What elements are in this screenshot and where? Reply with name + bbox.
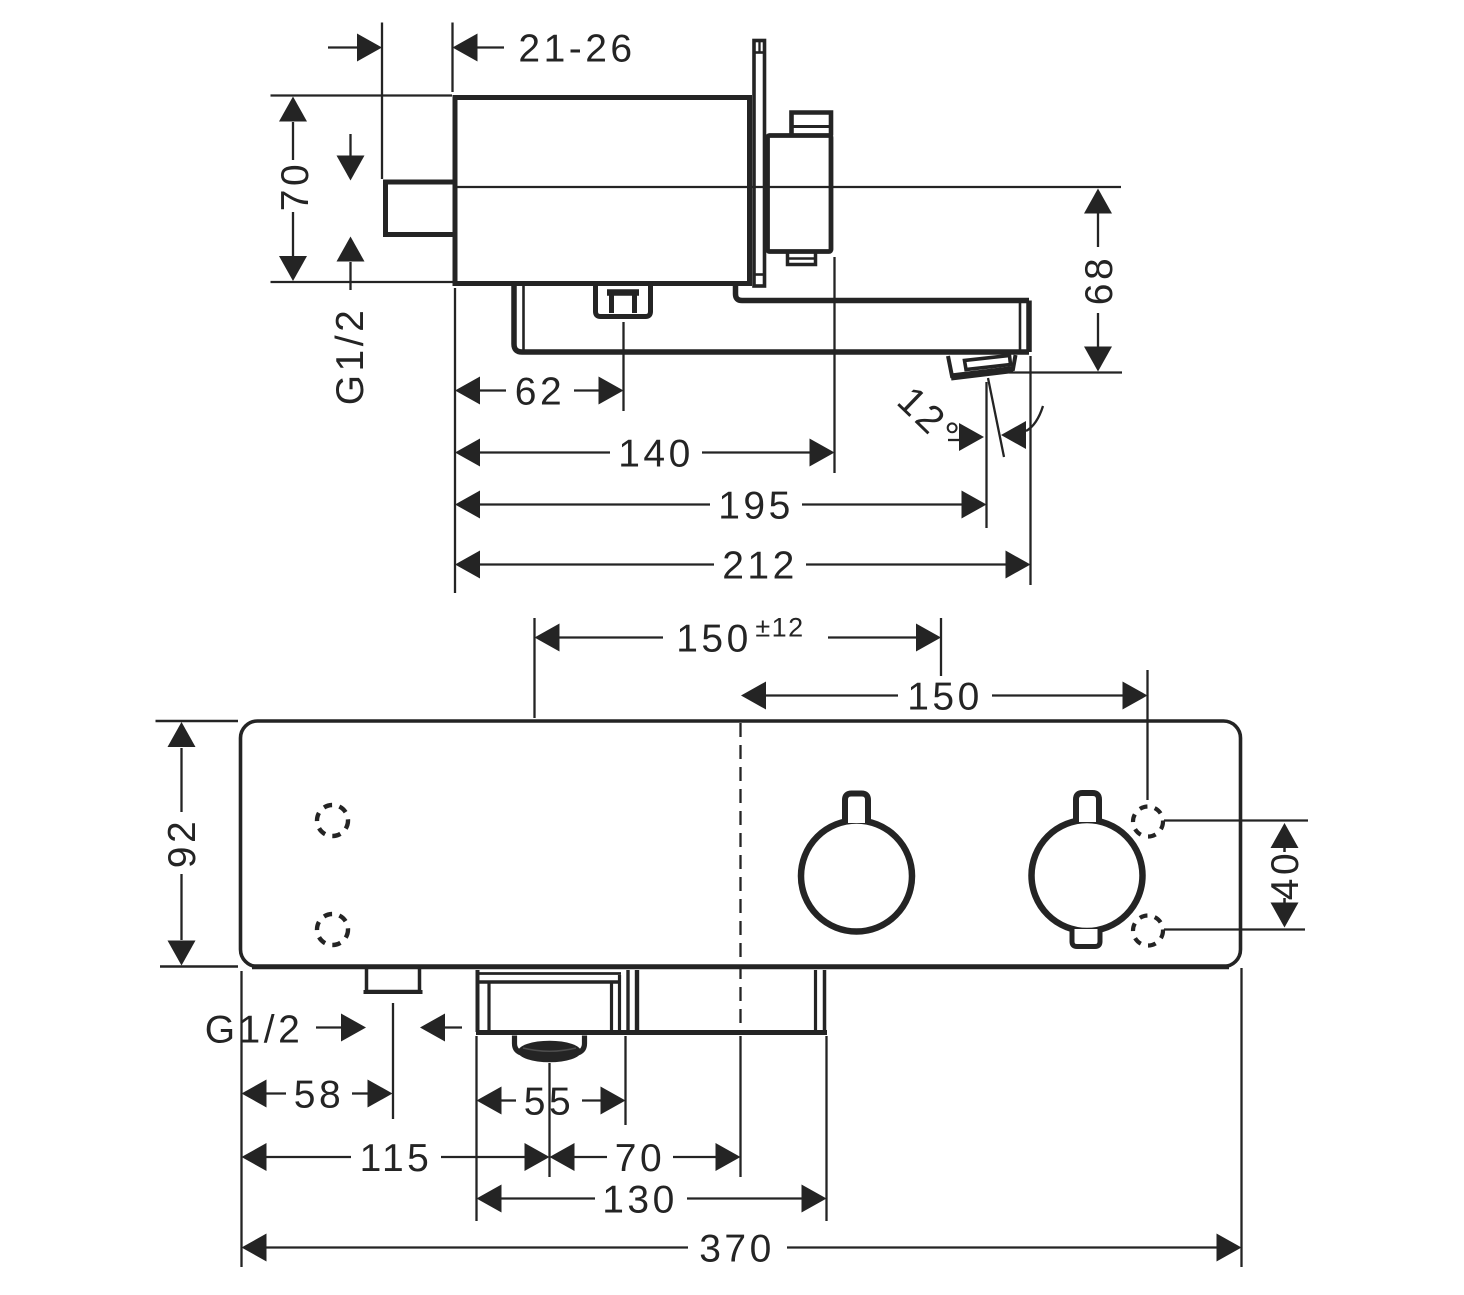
side view: spout bar inner left line <box>522 286 525 350</box>
svg-text:21-26: 21-26 <box>518 28 635 71</box>
front view: body bottom edge thick <box>252 964 1229 969</box>
svg-text:62: 62 <box>515 371 565 414</box>
dimension 58 <box>240 971 242 1267</box>
svg-text:212: 212 <box>722 545 798 588</box>
side view: spout mounting nut outer <box>596 283 651 317</box>
front view: volume knob (right) <box>1032 820 1143 931</box>
svg-text:130: 130 <box>602 1179 678 1222</box>
dimension 130 <box>825 1036 827 1221</box>
dimension 212 <box>1029 356 1031 585</box>
side view: spout bar right-section top edge with step <box>736 284 1030 301</box>
side view: spout bar left edge and bottom <box>514 284 1029 352</box>
front view: shower hose hole dashed circles <box>1133 807 1163 837</box>
svg-text:92: 92 <box>161 818 204 868</box>
side view: spout right end inner line <box>1019 303 1022 350</box>
dimension 115 <box>266 1156 351 1158</box>
dimension 70 <box>575 1156 608 1158</box>
svg-text:150: 150 <box>907 676 983 719</box>
svg-text:40: 40 <box>1264 850 1307 900</box>
dimension 62 <box>454 288 456 593</box>
front view: right knob bottom tab <box>1072 929 1100 947</box>
side view: spout right end edge <box>1026 301 1032 353</box>
dimension 70 overall height <box>271 94 453 96</box>
side view: wall plate <box>754 41 765 287</box>
svg-text:G1/2: G1/2 <box>205 1009 304 1052</box>
side view: body horizontal centerline <box>456 186 1121 188</box>
dimension 370 overall width <box>1240 968 1242 1267</box>
svg-text:70: 70 <box>274 161 317 211</box>
side view: escutcheon top tab <box>792 113 832 136</box>
front view: temperature knob (left) <box>801 821 912 932</box>
svg-text:140: 140 <box>618 433 694 476</box>
dimension 150 plus-minus 12 supply spacing <box>533 618 535 718</box>
svg-text:370: 370 <box>699 1228 775 1271</box>
svg-text:195: 195 <box>718 485 794 528</box>
svg-text:±12: ±12 <box>755 612 804 642</box>
svg-text:G1/2: G1/2 <box>329 307 372 406</box>
side view: aerator outlet tilted under spout end <box>948 355 1016 376</box>
dimension G1/2 stub arrows <box>316 1026 342 1028</box>
svg-text:55: 55 <box>524 1081 574 1124</box>
dimension 55 <box>475 1036 477 1221</box>
dimension 68 spout height <box>1009 371 1122 373</box>
svg-text:58: 58 <box>294 1074 344 1117</box>
side view: escutcheon bottom tab <box>788 252 816 265</box>
front view: aerator dome under spout <box>515 1036 524 1054</box>
svg-text:68: 68 <box>1078 255 1121 305</box>
svg-text:150: 150 <box>676 618 752 661</box>
front view: hole leader lines <box>1164 819 1308 821</box>
front view: body outline rounded rect <box>241 721 1241 967</box>
front view: center dashed line <box>739 723 741 1030</box>
dimension 21-26 wall thickness <box>381 23 383 180</box>
svg-text:70: 70 <box>615 1137 665 1180</box>
dimension 92 body height <box>156 720 239 722</box>
side view: G1/2 inlet connector box <box>386 182 456 235</box>
dimension 150 to shower hole <box>1146 670 1148 800</box>
front view: spout assembly below body <box>476 970 480 1032</box>
dimension 12 degrees spout angle <box>988 378 1004 457</box>
front view: left G1/2 stub below body <box>367 969 420 992</box>
front view: left mounting holes dashed circles <box>317 805 348 836</box>
side view: escutcheon fitting behind plate <box>768 136 832 252</box>
svg-text:115: 115 <box>360 1137 433 1180</box>
side view: wall plate top cap line <box>754 51 765 54</box>
side view: spout nut center box <box>612 291 635 313</box>
side view: mixer body outline <box>455 98 750 284</box>
dimension 195 <box>985 382 987 528</box>
side view: wall plate bottom cap line <box>754 273 765 276</box>
dimension G1/2 inlet arrows <box>349 134 351 157</box>
dimension 40 hole spacing <box>1283 846 1286 852</box>
dimension 140 <box>833 257 835 473</box>
